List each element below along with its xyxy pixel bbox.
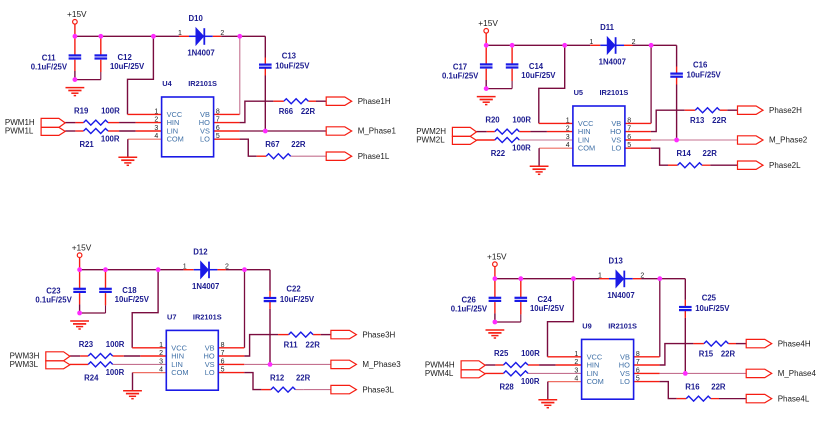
connector port Phase4H [746, 339, 811, 348]
svg-text:PWM3L: PWM3L [10, 360, 39, 369]
svg-text:C26: C26 [462, 296, 477, 305]
svg-text:3: 3 [154, 125, 158, 132]
resistor R28 100R [499, 371, 539, 392]
connector port PWM1L [5, 127, 65, 136]
pin 5 LO [611, 142, 631, 153]
wire node VB: diode output to pin 8 and C16 [625, 45, 677, 140]
wire VS / M_Phase2 net [625, 139, 738, 141]
svg-text:100R: 100R [101, 135, 120, 144]
pin 8 VB [200, 108, 220, 119]
svg-text:D12: D12 [193, 248, 208, 257]
diode D11 1N4007 [599, 23, 626, 66]
wire HO to R11 [218, 335, 331, 356]
svg-text:8: 8 [216, 108, 220, 115]
node junction dots on +15V bus [73, 34, 243, 39]
svg-text:22R: 22R [306, 341, 321, 350]
pin 5 LO [200, 133, 220, 144]
ground below C11/C12 [66, 88, 85, 96]
pin 8 VB [205, 342, 225, 353]
connector port PWM2L [416, 136, 476, 145]
wire capacitor C14 branch [486, 45, 512, 88]
svg-text:100R: 100R [512, 144, 531, 153]
resistor R66 22R [279, 99, 316, 116]
svg-text:R67: R67 [265, 140, 279, 149]
svg-text:C11: C11 [42, 53, 57, 62]
svg-text:U9: U9 [582, 322, 591, 331]
ground at COM pin 4 [118, 157, 137, 165]
svg-text:1: 1 [178, 30, 182, 37]
svg-text:10uF/25V: 10uF/25V [521, 71, 556, 80]
svg-text:6: 6 [216, 125, 220, 132]
pin 3 LIN [154, 125, 178, 136]
wire node VB: diode output to pin 8 and C22 [218, 270, 270, 365]
svg-text:10uF/25V: 10uF/25V [687, 71, 722, 80]
pin 7 HO [199, 117, 220, 128]
svg-text:2: 2 [640, 273, 644, 280]
connector port M_Phase1 [326, 127, 396, 136]
op-amp driver U9 IR2101S box [582, 339, 634, 399]
svg-text:22R: 22R [721, 350, 736, 359]
connector port M_Phase3 [331, 360, 401, 369]
wire PWM2L input to LIN [477, 139, 573, 141]
pin 4 COM [566, 142, 595, 153]
svg-text:1N4007: 1N4007 [192, 282, 219, 291]
capacitor C22 10uF/25V [264, 285, 315, 304]
svg-text:PWM2L: PWM2L [416, 136, 445, 145]
svg-text:8: 8 [627, 117, 631, 124]
node capacitor ground junction [493, 320, 498, 325]
svg-text:R13: R13 [690, 116, 705, 125]
svg-text:100R: 100R [521, 377, 540, 386]
node VS junction [683, 371, 688, 376]
svg-text:LO: LO [205, 368, 215, 377]
svg-text:1: 1 [154, 108, 158, 115]
pin 1 VCC [154, 108, 182, 119]
svg-text:R22: R22 [491, 149, 506, 158]
svg-text:0.1uF/25V: 0.1uF/25V [31, 62, 68, 71]
connector port Phase1H [326, 97, 391, 106]
svg-text:4: 4 [159, 367, 163, 374]
svg-text:1: 1 [589, 39, 593, 46]
svg-text:6: 6 [221, 358, 225, 365]
pin 7 HO [610, 126, 631, 137]
node VS junction [268, 362, 273, 367]
svg-text:C24: C24 [538, 295, 553, 304]
resistor R15 22R [699, 341, 736, 358]
pin 3 LIN [566, 134, 590, 145]
pin 6 VS [611, 134, 631, 145]
svg-text:Phase3H: Phase3H [362, 330, 395, 339]
svg-text:R21: R21 [79, 140, 94, 149]
svg-text:D11: D11 [600, 23, 615, 32]
capacitor C23 0.1uF/25V [35, 287, 86, 305]
node junction dots on +15V bus [77, 267, 247, 272]
svg-text:7: 7 [627, 126, 631, 133]
svg-text:+15V: +15V [487, 252, 507, 262]
svg-text:1: 1 [183, 263, 187, 270]
svg-text:10uF/25V: 10uF/25V [275, 62, 310, 71]
resistor R22 100R [491, 138, 531, 159]
pin 2 HIN [566, 126, 591, 137]
connector port PWM4L [425, 369, 485, 378]
node junction dots on +15V bus [493, 276, 663, 281]
pin 5 LO [620, 376, 640, 387]
capacitor C14 10uF/25V [506, 62, 557, 80]
svg-text:22R: 22R [703, 149, 718, 158]
svg-text:1: 1 [574, 351, 578, 358]
ground below C26/C24 [486, 330, 505, 338]
svg-text:R16: R16 [685, 383, 700, 392]
svg-text:COM: COM [587, 377, 604, 386]
svg-text:6: 6 [636, 367, 640, 374]
svg-text:Phase1L: Phase1L [358, 152, 390, 161]
svg-text:100R: 100R [101, 107, 120, 116]
resistor R67 22R [265, 140, 306, 159]
wire PWM3H input to HIN [70, 355, 166, 357]
svg-text:22R: 22R [296, 374, 311, 383]
svg-text:R11: R11 [284, 341, 299, 350]
pin 5 LO [205, 367, 225, 378]
resistor R24 100R [84, 362, 124, 383]
pin 8 VB [611, 117, 631, 128]
resistor R11 22R [284, 332, 321, 349]
svg-text:2: 2 [220, 30, 224, 37]
power +15V [67, 9, 87, 24]
svg-text:0.1uF/25V: 0.1uF/25V [35, 296, 72, 305]
wire node VB: diode output to pin 8 and C25 [634, 279, 686, 374]
pin 3 LIN [574, 367, 598, 378]
node capacitor ground junction [77, 311, 82, 316]
pin 8 VB [620, 351, 640, 362]
svg-text:COM: COM [578, 144, 595, 153]
wire LO to R12 [218, 373, 331, 390]
connector port PWM1H [5, 118, 65, 127]
svg-text:M_Phase4: M_Phase4 [778, 369, 817, 378]
wire capacitor C18 branch [80, 270, 106, 313]
wire capacitor C24 branch [495, 279, 521, 322]
pin 1 VCC [574, 351, 602, 362]
svg-text:2: 2 [159, 350, 163, 357]
svg-text:C23: C23 [46, 287, 61, 296]
capacitor C13 10uF/25V [259, 51, 310, 70]
wire COM to ground [133, 373, 167, 391]
wire node VB: diode output to pin 8 and C13 [214, 36, 266, 131]
svg-text:R20: R20 [485, 116, 500, 125]
svg-text:0.1uF/25V: 0.1uF/25V [442, 71, 479, 80]
svg-text:U4: U4 [162, 79, 172, 88]
pin 7 HO [619, 359, 640, 370]
svg-text:COM: COM [167, 135, 184, 144]
resistor R14 22R [677, 149, 718, 168]
diode D13 1N4007 [607, 257, 634, 300]
svg-text:IR2101S: IR2101S [608, 322, 637, 331]
svg-text:R15: R15 [699, 350, 714, 359]
svg-text:2: 2 [225, 264, 229, 271]
svg-text:C17: C17 [453, 62, 467, 71]
svg-text:R28: R28 [499, 382, 514, 391]
power +15V [478, 18, 498, 33]
svg-text:0.1uF/25V: 0.1uF/25V [451, 305, 488, 314]
svg-text:+15V: +15V [67, 9, 87, 19]
ground below C17/C14 [477, 97, 496, 105]
svg-text:U7: U7 [167, 313, 176, 322]
svg-text:7: 7 [221, 350, 225, 357]
svg-text:100R: 100R [521, 349, 540, 358]
pin 6 VS [620, 367, 640, 378]
svg-text:1: 1 [598, 272, 602, 279]
svg-text:D13: D13 [609, 257, 624, 266]
svg-text:10uF/25V: 10uF/25V [280, 295, 315, 304]
capacitor C17 0.1uF/25V [442, 62, 493, 80]
wire VCC feed from bus to pin 1 [132, 270, 166, 348]
connector port Phase4L [746, 394, 810, 403]
wire VCC feed from bus to pin 1 [548, 279, 582, 357]
svg-text:100R: 100R [106, 340, 125, 349]
svg-text:6: 6 [627, 134, 631, 141]
wire PWM1L input to LIN [65, 130, 161, 132]
svg-text:3: 3 [159, 358, 163, 365]
wire HO to R13 [625, 110, 738, 131]
connector port PWM3H [10, 352, 70, 361]
wire LO to R67 [214, 139, 327, 156]
wire +15V bus [495, 267, 660, 279]
resistor R21 100R [79, 129, 119, 150]
svg-text:IR2101S: IR2101S [600, 88, 629, 97]
pin 6 VS [200, 125, 220, 136]
svg-text:22R: 22R [712, 116, 727, 125]
wire PWM2H input to HIN [477, 131, 573, 133]
connector port Phase2L [738, 161, 802, 170]
wire capacitor C11 branch [74, 36, 76, 79]
svg-text:IR2101S: IR2101S [188, 79, 217, 88]
resistor R12 22R [270, 374, 311, 393]
capacitor C11 0.1uF/25V [31, 53, 82, 71]
svg-text:M_Phase3: M_Phase3 [362, 360, 401, 369]
connector port M_Phase4 [746, 369, 816, 378]
svg-text:3: 3 [574, 367, 578, 374]
pin 3 LIN [159, 358, 183, 369]
svg-text:10uF/25V: 10uF/25V [110, 62, 145, 71]
wire capacitor C23 branch [79, 270, 81, 313]
svg-text:COM: COM [171, 368, 188, 377]
connector port Phase1L [326, 152, 390, 161]
pin 4 COM [154, 133, 183, 144]
ground below C23/C18 [70, 321, 89, 329]
svg-text:2: 2 [566, 126, 570, 133]
node junction dots on +15V bus [484, 43, 654, 48]
pin 6 VS [205, 358, 225, 369]
capacitor C18 10uF/25V [99, 286, 150, 304]
svg-text:R19: R19 [74, 107, 89, 116]
svg-text:22R: 22R [301, 107, 316, 116]
power +15V [487, 252, 507, 267]
svg-text:3: 3 [566, 134, 570, 141]
svg-text:22R: 22R [711, 383, 726, 392]
pin 2 HIN [574, 359, 599, 370]
resistor R13 22R [690, 108, 727, 125]
connector port Phase3L [331, 385, 395, 394]
svg-text:C14: C14 [529, 62, 544, 71]
svg-text:Phase1H: Phase1H [358, 97, 391, 106]
svg-text:C16: C16 [693, 60, 708, 69]
node capacitor ground junction [484, 86, 489, 91]
svg-text:1: 1 [159, 342, 163, 349]
svg-text:4: 4 [574, 376, 578, 383]
wire COM to ground [128, 139, 162, 157]
svg-text:5: 5 [216, 133, 220, 140]
svg-text:C22: C22 [286, 285, 301, 294]
capacitor C26 0.1uF/25V [451, 296, 502, 314]
wire VS / M_Phase3 net [218, 363, 331, 365]
wire PWM3L input to LIN [70, 363, 166, 365]
resistor R20 100R [485, 116, 531, 135]
svg-text:R66: R66 [279, 107, 294, 116]
svg-text:10uF/25V: 10uF/25V [530, 304, 565, 313]
wire capacitor C26 branch [494, 279, 496, 322]
wire LO to R14 [625, 148, 738, 165]
svg-text:R23: R23 [79, 340, 94, 349]
wire +15V bus [80, 258, 245, 270]
svg-text:+15V: +15V [72, 243, 92, 253]
svg-text:8: 8 [636, 351, 640, 358]
svg-text:C13: C13 [282, 51, 297, 60]
svg-text:C12: C12 [118, 53, 133, 62]
diode D10 1N4007 [187, 14, 214, 57]
wire COM to ground [539, 148, 573, 166]
svg-text:R12: R12 [270, 374, 285, 383]
wire VCC feed from bus to pin 1 [128, 36, 162, 114]
svg-text:5: 5 [627, 142, 631, 149]
svg-text:100R: 100R [512, 116, 531, 125]
svg-text:R24: R24 [84, 373, 99, 382]
wire +15V bus [486, 33, 651, 45]
wire capacitor C17 branch [485, 45, 487, 88]
svg-text:IR2101S: IR2101S [193, 313, 222, 322]
op-amp driver U4 IR2101S box [162, 97, 214, 157]
op-amp driver U5 IR2101S box [573, 106, 625, 166]
connector port Phase2H [738, 106, 803, 115]
svg-text:10uF/25V: 10uF/25V [115, 295, 150, 304]
svg-text:U5: U5 [574, 88, 583, 97]
pin 4 COM [159, 367, 188, 378]
connector port PWM4H [425, 361, 485, 370]
ground at COM pin 4 [530, 166, 549, 174]
wire HO to R66 [214, 101, 327, 122]
svg-text:1N4007: 1N4007 [607, 291, 634, 300]
svg-text:2: 2 [632, 39, 636, 46]
svg-text:R25: R25 [494, 349, 509, 358]
wire COM to ground [548, 382, 582, 400]
svg-text:PWM1L: PWM1L [5, 127, 34, 136]
wire HO to R15 [634, 344, 747, 365]
wire VS / M_Phase4 net [634, 372, 747, 374]
node VS junction [263, 129, 268, 134]
connector port PWM2H [416, 127, 476, 136]
ground at COM pin 4 [123, 391, 142, 399]
wire PWM1H input to HIN [65, 122, 161, 124]
svg-text:PWM4L: PWM4L [425, 369, 454, 378]
pin 2 HIN [154, 117, 179, 128]
svg-text:M_Phase2: M_Phase2 [769, 136, 808, 145]
svg-text:D10: D10 [189, 14, 204, 23]
svg-text:5: 5 [221, 367, 225, 374]
wire capacitor C12 branch [75, 36, 101, 79]
svg-text:LO: LO [200, 135, 210, 144]
svg-text:Phase2H: Phase2H [769, 106, 802, 115]
node VS junction [674, 138, 679, 143]
svg-text:7: 7 [216, 117, 220, 124]
resistor R23 100R [79, 340, 125, 359]
svg-text:1N4007: 1N4007 [599, 57, 626, 66]
pin 7 HO [204, 350, 225, 361]
svg-text:2: 2 [574, 359, 578, 366]
capacitor C16 10uF/25V [670, 60, 721, 79]
svg-text:1N4007: 1N4007 [187, 48, 214, 57]
pin 4 COM [574, 376, 603, 387]
svg-text:+15V: +15V [478, 18, 498, 28]
wire VCC feed from bus to pin 1 [539, 45, 573, 123]
svg-text:4: 4 [154, 133, 158, 140]
connector port M_Phase2 [738, 136, 808, 145]
svg-text:C25: C25 [702, 294, 717, 303]
svg-text:8: 8 [221, 342, 225, 349]
svg-text:100R: 100R [106, 368, 125, 377]
resistor R16 22R [685, 383, 726, 402]
capacitor C12 10uF/25V [95, 53, 146, 71]
svg-text:2: 2 [154, 117, 158, 124]
diode D12 1N4007 [192, 248, 219, 291]
node capacitor ground junction [73, 77, 78, 82]
wire LO to R16 [634, 382, 747, 399]
pin 2 HIN [159, 350, 184, 361]
svg-text:R14: R14 [677, 149, 692, 158]
svg-text:5: 5 [636, 376, 640, 383]
svg-text:Phase4L: Phase4L [778, 394, 810, 403]
capacitor C24 10uF/25V [515, 295, 566, 313]
svg-text:Phase4H: Phase4H [778, 339, 811, 348]
svg-text:M_Phase1: M_Phase1 [358, 127, 397, 136]
connector port Phase3H [331, 330, 396, 339]
svg-text:22R: 22R [291, 140, 306, 149]
svg-text:4: 4 [566, 142, 570, 149]
svg-text:10uF/25V: 10uF/25V [695, 304, 730, 313]
power +15V [72, 243, 92, 258]
svg-text:1: 1 [566, 117, 570, 124]
ground at COM pin 4 [538, 400, 557, 408]
svg-text:LO: LO [620, 377, 630, 386]
svg-text:C18: C18 [122, 286, 137, 295]
capacitor C25 10uF/25V [679, 294, 730, 313]
op-amp driver U7 IR2101S box [166, 330, 218, 390]
resistor R19 100R [74, 107, 120, 126]
pin 1 VCC [566, 117, 594, 128]
svg-text:LO: LO [611, 144, 621, 153]
wire +15V bus [75, 24, 240, 36]
svg-text:Phase3L: Phase3L [362, 385, 394, 394]
wire VS / M_Phase1 net [214, 130, 327, 132]
svg-text:Phase2L: Phase2L [769, 161, 801, 170]
resistor R25 100R [494, 349, 540, 368]
svg-text:7: 7 [636, 359, 640, 366]
connector port PWM3L [10, 360, 70, 369]
wire PWM4L input to LIN [485, 372, 581, 374]
wire PWM4H input to HIN [485, 364, 581, 366]
pin 1 VCC [159, 342, 187, 353]
